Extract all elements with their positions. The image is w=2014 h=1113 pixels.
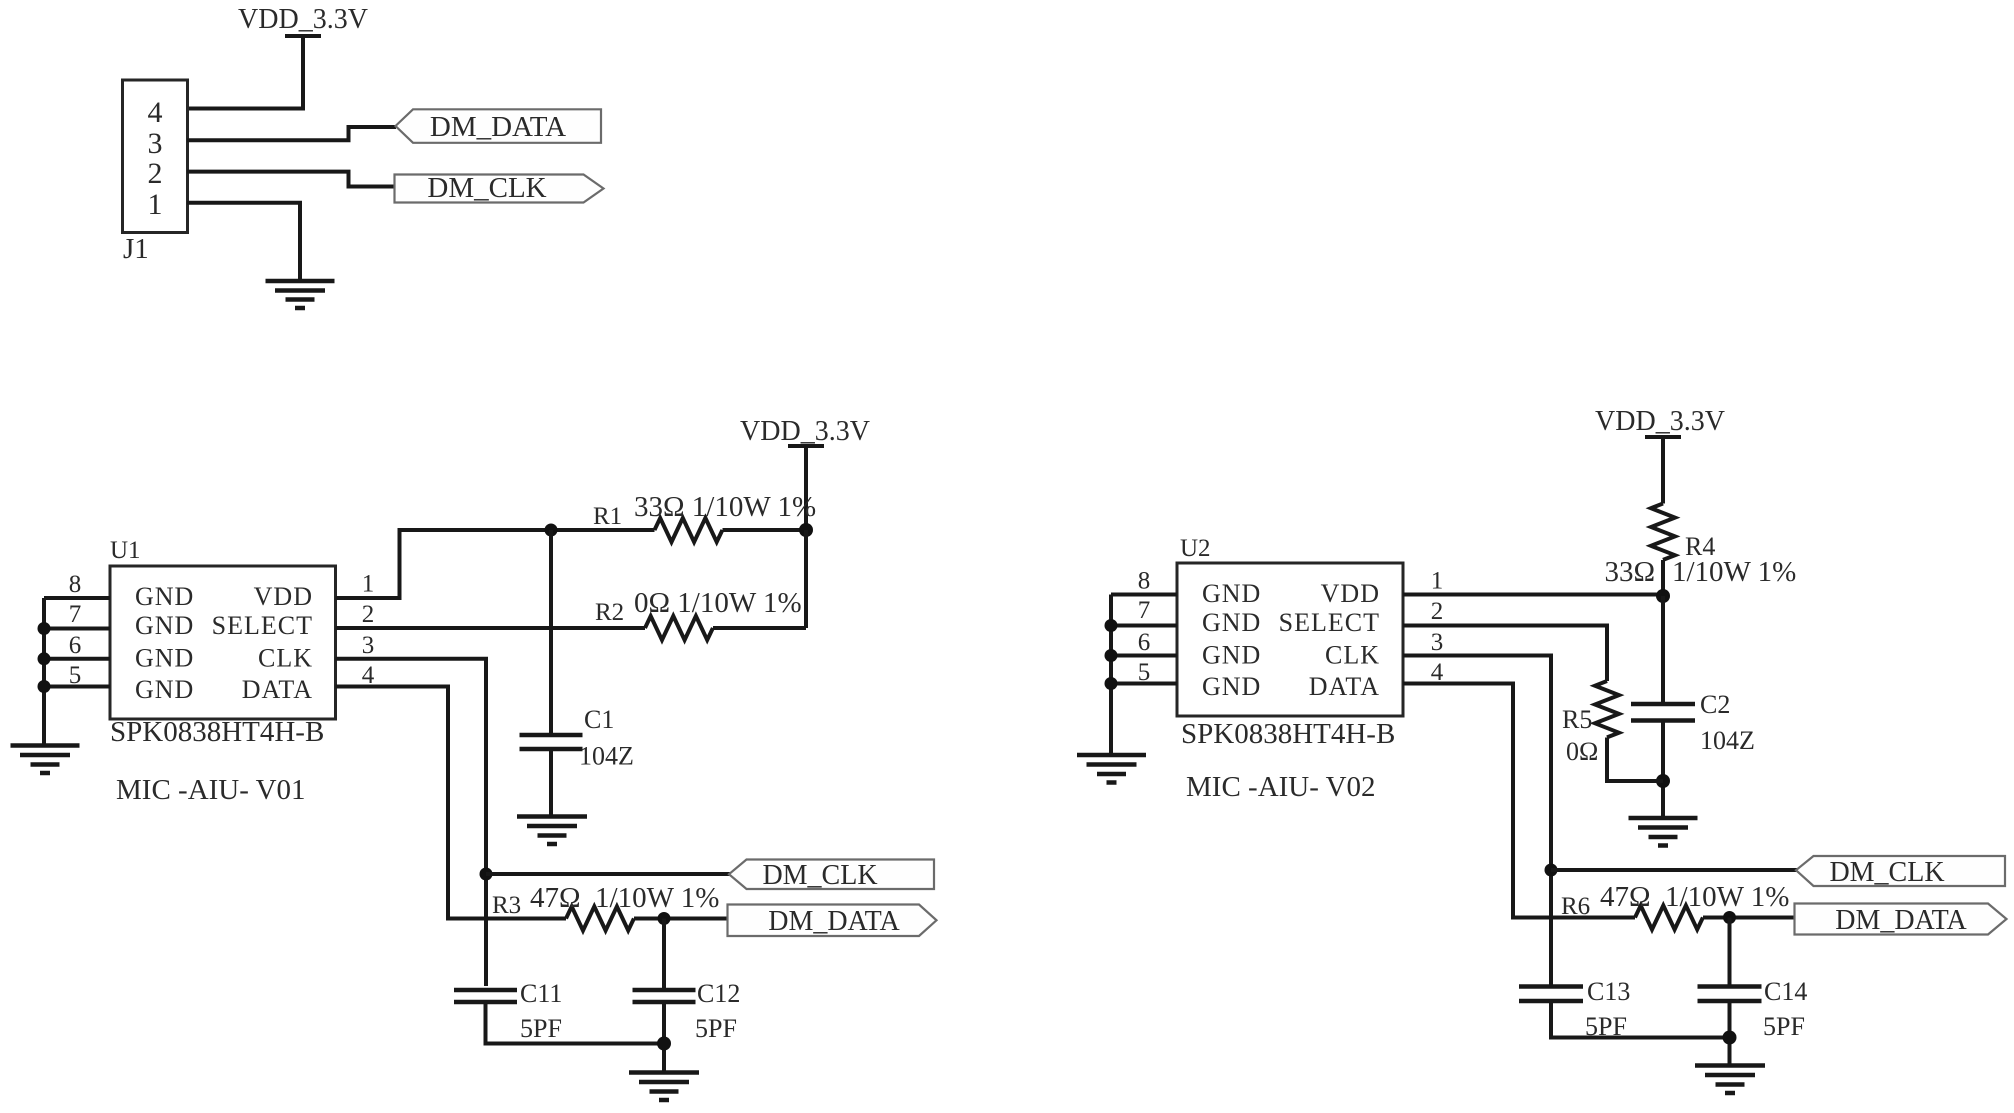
wire C2 stem upper — [1661, 596, 1665, 704]
wire R1 right to VDD node — [723, 528, 807, 532]
wire R4 bottom to VDD node — [1661, 560, 1665, 596]
wire U1 pin 8 — [44, 596, 110, 600]
svg-text:C13: C13 — [1587, 977, 1630, 1006]
svg-text:DM_CLK: DM_CLK — [1829, 857, 1944, 888]
capacitor C2 — [1631, 704, 1695, 721]
node DM_DATA (J1) — [396, 109, 602, 143]
svg-text:VDD_3.3V: VDD_3.3V — [740, 416, 870, 447]
junction U1 pin 5 — [38, 680, 51, 693]
svg-text:GND: GND — [1202, 641, 1261, 670]
resistor R3 — [566, 907, 634, 931]
power VDD_3.3V (U2 section) — [1595, 406, 1725, 437]
svg-text:104Z: 104Z — [1700, 726, 1755, 755]
svg-text:GND: GND — [135, 644, 194, 673]
wire U1 pin 3 CLK down — [336, 659, 487, 986]
svg-text:6: 6 — [1138, 629, 1151, 656]
wire VDD node down to R2 — [804, 530, 808, 628]
resistor R6 — [1635, 906, 1703, 930]
svg-text:104Z: 104Z — [579, 742, 634, 771]
mic U2 SPK0838HT4H-B — [1177, 563, 1403, 716]
svg-text:DM_DATA: DM_DATA — [1835, 905, 1967, 936]
svg-text:GND: GND — [135, 582, 194, 611]
ground (U1 left) — [11, 746, 80, 774]
svg-text:GND: GND — [1202, 579, 1261, 608]
svg-text:CLK: CLK — [258, 644, 313, 673]
ground (J1 section) — [266, 281, 335, 308]
wire U2 pin 6 — [1111, 654, 1177, 658]
svg-text:2: 2 — [1431, 598, 1444, 625]
resistor R2 — [645, 616, 713, 640]
wire R3 right to DM_DATA — [634, 917, 728, 921]
svg-text:DM_CLK: DM_CLK — [762, 860, 877, 891]
svg-text:MIC -AIU- V01: MIC -AIU- V01 — [116, 774, 306, 806]
svg-text:1: 1 — [1431, 568, 1444, 595]
svg-text:MIC -AIU- V02: MIC -AIU- V02 — [1186, 771, 1376, 803]
wire U1 pin 1 to R1 — [336, 530, 655, 598]
wire U2 pin 5 — [1111, 682, 1177, 686]
svg-text:C1: C1 — [584, 705, 614, 734]
wire C12 stem upper — [662, 919, 666, 991]
junction U2 VDD node — [1656, 589, 1670, 603]
svg-text:1: 1 — [362, 571, 375, 598]
svg-text:1/10W 1%: 1/10W 1% — [1672, 556, 1796, 588]
svg-text:5PF: 5PF — [520, 1014, 562, 1043]
svg-text:8: 8 — [1138, 568, 1151, 595]
junction C13/C14 rail — [1723, 1031, 1737, 1045]
svg-text:5PF: 5PF — [695, 1014, 737, 1043]
svg-text:U1: U1 — [110, 537, 141, 564]
wire C12 bottom to ground — [662, 1002, 666, 1073]
junction U1 pin 7 — [38, 622, 51, 635]
svg-text:8: 8 — [69, 571, 82, 598]
wire C13 bottom to rail — [1551, 1001, 1730, 1038]
svg-text:3: 3 — [362, 632, 375, 659]
capacitor C12 — [633, 990, 696, 1002]
power VDD_3.3V (J1 section) — [238, 4, 368, 36]
wire J1 pin 2 to DM_CLK — [187, 172, 395, 187]
wire C2 stem lower — [1661, 721, 1665, 819]
svg-text:33Ω 1/10W 1%: 33Ω 1/10W 1% — [634, 491, 816, 523]
wire U1 pin 7 — [44, 627, 110, 631]
svg-text:0Ω: 0Ω — [1566, 737, 1598, 766]
junction U1 pin 6 — [38, 652, 51, 665]
svg-text:SELECT: SELECT — [212, 611, 313, 640]
junction U2 pin 7 — [1105, 619, 1118, 632]
ground (U1 bottom) — [629, 1073, 699, 1101]
node DM_DATA (U2) — [1795, 904, 2007, 937]
mic U1 SPK0838HT4H-B — [110, 566, 336, 719]
svg-text:5PF: 5PF — [1763, 1012, 1805, 1041]
junction DM_CLK tap (U2) — [1545, 864, 1558, 877]
svg-text:7: 7 — [69, 601, 82, 628]
wire U2 pin 7 — [1111, 624, 1177, 628]
svg-text:1: 1 — [148, 188, 163, 221]
wire C14 stem upper — [1728, 918, 1732, 987]
svg-text:CLK: CLK — [1325, 641, 1380, 670]
wire U2 pin 3 CLK down — [1403, 656, 1551, 985]
wire U2 pin 8 — [1111, 593, 1177, 597]
resistor R4 — [1651, 504, 1675, 560]
svg-text:R1: R1 — [593, 503, 622, 530]
svg-text:C12: C12 — [697, 979, 740, 1008]
wire C11 bottom to rail — [486, 1002, 665, 1044]
capacitor C11 — [454, 990, 517, 1002]
svg-text:C2: C2 — [1700, 690, 1730, 719]
wire U2 pin 1 to VDD node — [1403, 593, 1663, 597]
junction R5/C2 node — [1656, 774, 1670, 788]
junction U2 pin 6 — [1105, 649, 1118, 662]
svg-text:4: 4 — [148, 96, 163, 129]
wire U1 pin 6 — [44, 657, 110, 661]
wire R2 right — [713, 626, 806, 630]
connector J1 — [123, 80, 188, 233]
svg-text:2: 2 — [362, 601, 375, 628]
svg-text:3: 3 — [148, 127, 163, 160]
resistor R1 — [655, 518, 723, 542]
wire C1 stem upper — [549, 530, 553, 735]
wire R5 bottom to C2 node — [1607, 738, 1663, 782]
svg-text:GND: GND — [1202, 672, 1261, 701]
svg-text:DM_DATA: DM_DATA — [430, 111, 566, 143]
wire VDD_3.3V stem (U1) — [804, 444, 808, 530]
wire DM_CLK (U1) — [486, 872, 730, 876]
svg-text:7: 7 — [1138, 597, 1151, 624]
power VDD_3.3V (U1 section) — [740, 416, 870, 447]
ground (U2 left) — [1077, 755, 1146, 783]
junction R1/R2/VDD node — [799, 523, 813, 537]
wire U2 GND bus vertical — [1109, 595, 1113, 756]
capacitor C13 — [1519, 987, 1583, 1002]
svg-text:VDD: VDD — [1321, 579, 1380, 608]
ground (C1) — [517, 817, 587, 845]
ground (C2) — [1629, 818, 1698, 846]
wire R6 right to DM_DATA — [1703, 916, 1795, 920]
svg-text:DATA: DATA — [1309, 672, 1380, 701]
wire U1 pin 5 — [44, 685, 110, 689]
node DM_DATA (U1) — [728, 905, 937, 938]
capacitor C1 — [520, 735, 583, 749]
svg-text:SPK0838HT4H-B: SPK0838HT4H-B — [1181, 718, 1395, 750]
wire C14 bottom to ground — [1728, 1001, 1732, 1066]
wire VDD_3.3V stem (U2) — [1661, 435, 1665, 504]
junction DM_CLK tap (U1) — [480, 868, 493, 881]
wire U1 GND bus vertical — [42, 598, 46, 746]
svg-text:R6: R6 — [1561, 893, 1590, 920]
svg-text:U2: U2 — [1180, 535, 1211, 562]
wire VDD_3.3V to J1 pin 4 — [187, 34, 303, 109]
resistor R5 — [1595, 681, 1619, 737]
ground (U2 bottom) — [1695, 1066, 1765, 1094]
wire U2 pin 4 DATA down to R6 — [1403, 684, 1635, 918]
svg-text:DATA: DATA — [242, 675, 313, 704]
wire C1 stem lower — [549, 749, 553, 816]
wire U1 pin 4 DATA down to R3 — [336, 687, 567, 919]
svg-text:2: 2 — [148, 157, 163, 190]
svg-text:GND: GND — [135, 611, 194, 640]
svg-text:VDD_3.3V: VDD_3.3V — [238, 4, 368, 35]
junction C11/C12 rail — [657, 1037, 671, 1051]
junction C14 tap — [1723, 911, 1736, 924]
junction C1 tap — [545, 524, 558, 537]
svg-text:SELECT: SELECT — [1279, 608, 1380, 637]
capacitor C14 — [1698, 987, 1762, 1002]
node DM_CLK (U1) — [729, 860, 934, 892]
node DM_CLK (J1) — [395, 172, 604, 204]
svg-text:SPK0838HT4H-B: SPK0838HT4H-B — [110, 716, 324, 748]
junction C12 tap — [658, 912, 671, 925]
wire J1 pin 1 to ground — [187, 203, 300, 281]
wire U2 pin 2 SELECT to R5 — [1403, 626, 1607, 682]
svg-text:6: 6 — [69, 632, 82, 659]
svg-text:C14: C14 — [1764, 977, 1807, 1006]
junction U2 pin 5 — [1105, 677, 1118, 690]
svg-text:R3: R3 — [492, 892, 521, 919]
svg-text:33Ω: 33Ω — [1604, 556, 1655, 588]
svg-text:DM_CLK: DM_CLK — [427, 172, 546, 204]
svg-text:VDD_3.3V: VDD_3.3V — [1595, 406, 1725, 437]
svg-text:R5: R5 — [1562, 705, 1592, 734]
svg-text:47Ω 1/10W 1%: 47Ω 1/10W 1% — [530, 882, 719, 914]
svg-text:R2: R2 — [595, 599, 624, 626]
wire J1 pin 3 to DM_DATA — [187, 127, 396, 140]
wire U1 pin 2 to R2 — [336, 626, 646, 630]
wire DM_CLK (U2) — [1551, 868, 1797, 872]
node DM_CLK (U2) — [1796, 856, 2005, 888]
svg-text:GND: GND — [1202, 608, 1261, 637]
svg-text:0Ω 1/10W 1%: 0Ω 1/10W 1% — [634, 587, 802, 619]
svg-text:C11: C11 — [520, 979, 562, 1008]
svg-text:GND: GND — [135, 675, 194, 704]
svg-text:DM_DATA: DM_DATA — [768, 906, 900, 937]
svg-text:3: 3 — [1431, 629, 1444, 656]
svg-text:VDD: VDD — [254, 582, 313, 611]
svg-text:J1: J1 — [123, 233, 149, 265]
svg-text:47Ω 1/10W 1%: 47Ω 1/10W 1% — [1600, 881, 1789, 913]
